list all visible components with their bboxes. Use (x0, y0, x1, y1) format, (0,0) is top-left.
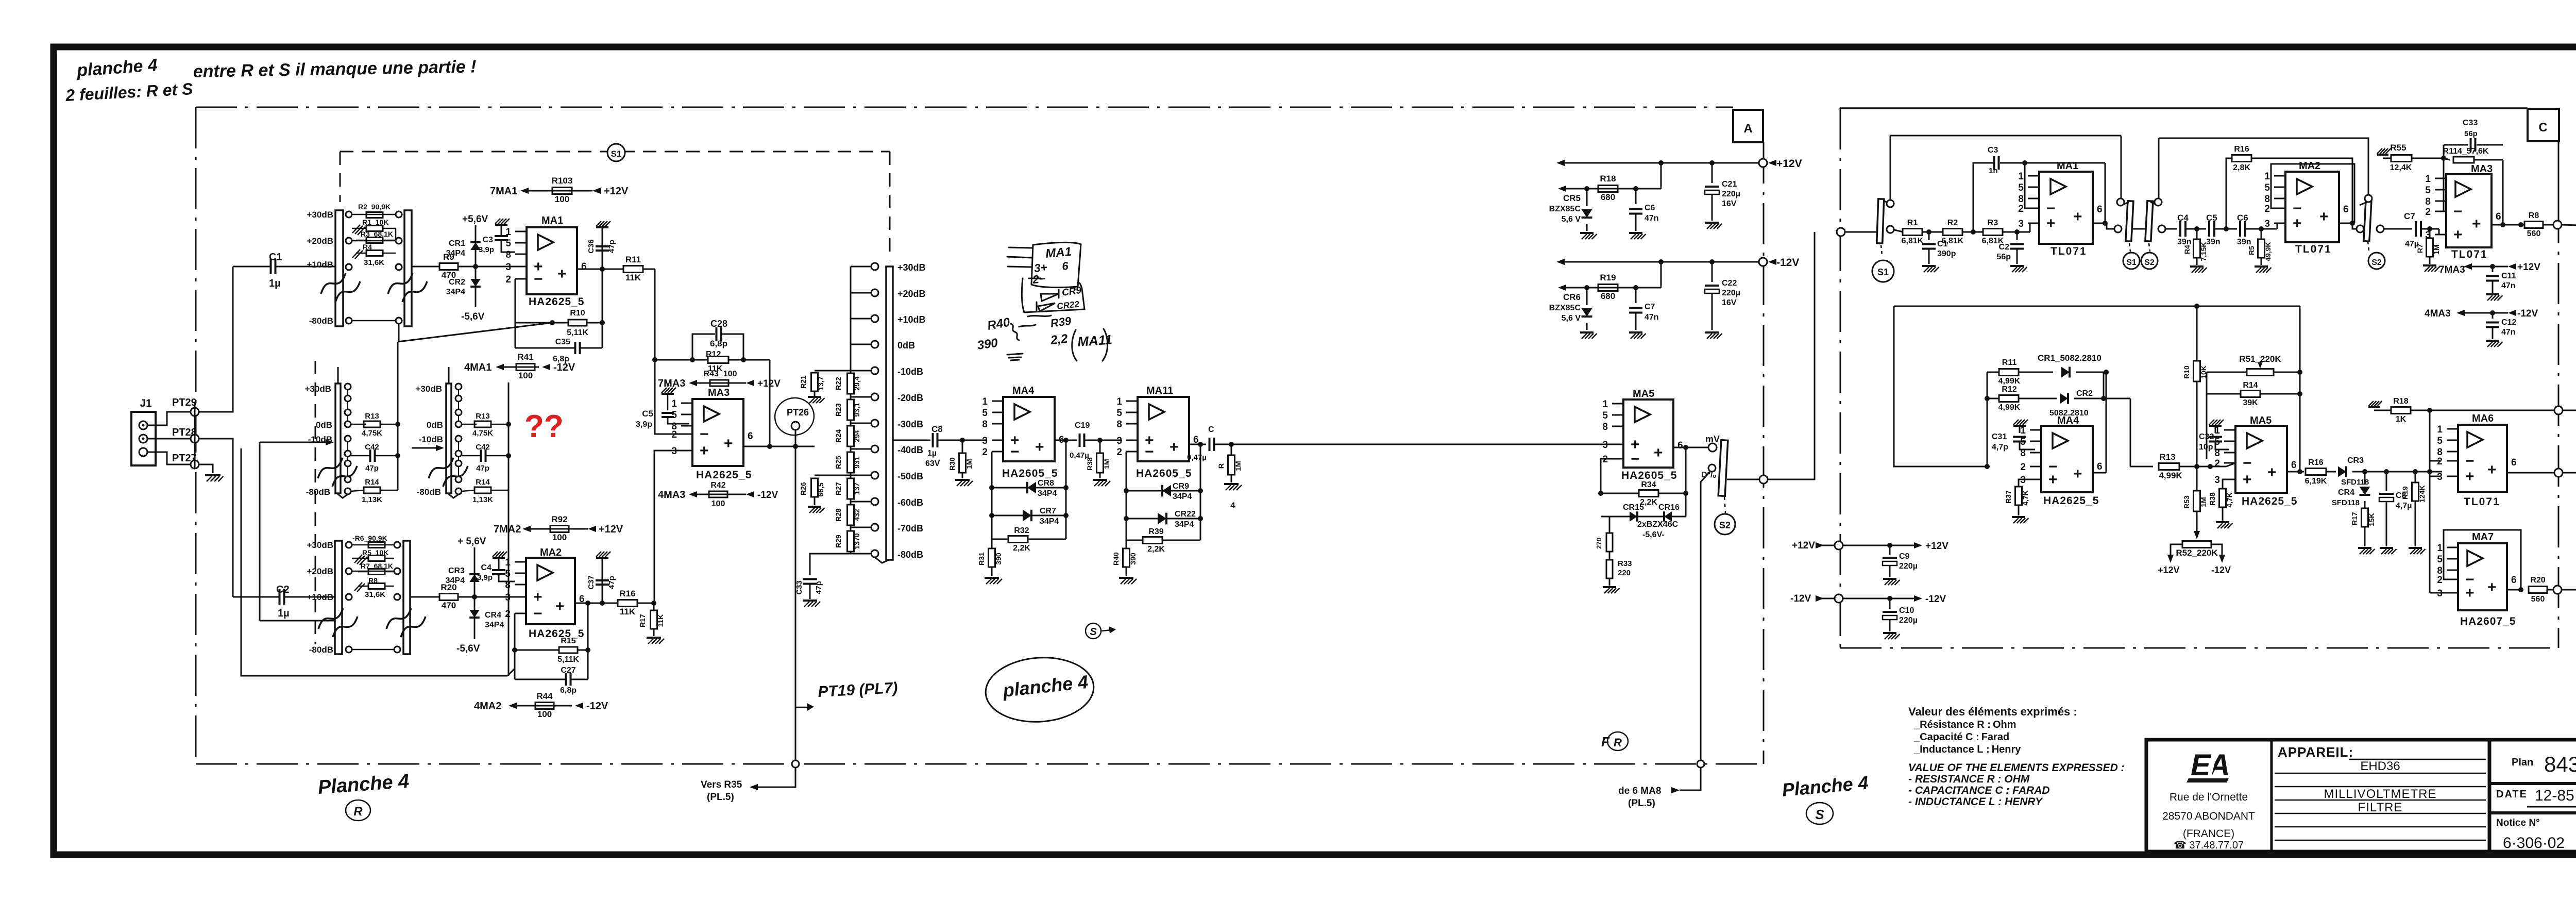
attenuator block2a wiper hook (337, 493, 348, 498)
svg-text:16V: 16V (1722, 298, 1737, 307)
svg-text:1,13K: 1,13K (472, 495, 493, 504)
resistor 270 (A) (1601, 516, 1609, 518)
diode CR22 34P4 (1126, 491, 1127, 519)
svg-text:-80dB: -80dB (306, 487, 330, 497)
resistor R33 220 (1606, 560, 1613, 578)
svg-text:R38: R38 (2208, 492, 2216, 506)
svg-text:C21: C21 (1722, 180, 1737, 189)
resistor R16 6,19K (C) (2306, 469, 2326, 475)
svg-text:R12: R12 (2002, 385, 2016, 394)
diode CR9 34P4 (1126, 490, 1200, 492)
diode CR1 34P4 (470, 242, 481, 250)
resistor R13 4,99K (2159, 463, 2179, 470)
resistor R16 11K (618, 600, 637, 607)
ladder bus segment above R25 (850, 446, 852, 452)
notch CR2 riser to main wire (2130, 398, 2131, 467)
MA5C pin3 drop to R38 (2223, 479, 2224, 489)
svg-text:R13: R13 (476, 412, 490, 421)
svg-text:S1: S1 (2126, 258, 2137, 267)
svg-text:C33: C33 (2463, 119, 2478, 127)
capacitor C36 47p (602, 227, 603, 269)
attenuator block2a squiggles (318, 458, 343, 478)
svg-text:-70dB: -70dB (897, 523, 923, 534)
diode CR7 34P4 (991, 488, 993, 515)
svg-text:1: 1 (1602, 399, 1608, 410)
capacitor C7 47u (2415, 221, 2417, 237)
op-amp MA5 HA2625_5 (C) (2235, 426, 2287, 493)
svg-text:R10: R10 (2182, 365, 2191, 379)
wire C6 to MA2C (2246, 228, 2277, 230)
svg-text:Notice N°: Notice N° (2496, 818, 2540, 828)
attenuator block2a bar top stub (337, 367, 339, 384)
svg-text:47p: 47p (476, 464, 489, 473)
hatch above C5 (662, 393, 674, 395)
hand sketch squiggly wires (1019, 315, 1051, 327)
svg-text:47n: 47n (2501, 281, 2516, 290)
R52 right leg to -12V (2211, 544, 2222, 558)
svg-text:MA3: MA3 (708, 387, 730, 398)
node PT29 (191, 408, 199, 416)
svg-text:8: 8 (1116, 419, 1122, 430)
resistor R30 1M (962, 440, 963, 454)
svg-text:R23: R23 (834, 403, 842, 417)
resistor R 1M (A) (1231, 444, 1232, 456)
ladder bus segment above R28 (850, 499, 852, 505)
switch slider bar (mV/D%) (1718, 440, 1728, 496)
svg-text:7MA3: 7MA3 (658, 378, 685, 389)
svg-text:8: 8 (1602, 422, 1608, 432)
switch slider 3 top contact (2365, 195, 2372, 202)
node circle MA6 output (2554, 469, 2563, 477)
op-amp MA11 HA2605_5 (1138, 397, 1189, 461)
svg-text:MA7: MA7 (2472, 531, 2494, 543)
svg-text:-80dB: -80dB (309, 316, 333, 326)
svg-text:R32: R32 (1014, 526, 1029, 535)
ladder tap stub +20dB (851, 292, 871, 294)
arrow +12V out (1914, 542, 1922, 548)
ladder tap stub -60dB (851, 501, 871, 503)
wire MA6 pin2 stub (2430, 460, 2440, 462)
svg-text:C36: C36 (587, 239, 596, 254)
capacitor C8 4,7u (C) (2386, 472, 2387, 491)
feedback capacitor C33 56p (C) (2444, 144, 2468, 146)
svg-text:390: 390 (976, 336, 999, 353)
wire CR3 node (2360, 471, 2442, 473)
wire -12V into node (1820, 598, 1835, 599)
svg-text:−: − (533, 605, 543, 622)
svg-text:5: 5 (2437, 436, 2443, 446)
wire R11 to MA3 riser (643, 269, 655, 270)
svg-text:11K: 11K (656, 614, 665, 627)
resistor R13 4,75K block2a (351, 424, 366, 425)
resistor R12 11K (708, 357, 728, 363)
resistor 270 vertical (1609, 517, 1611, 533)
long return wire lower left (241, 448, 507, 676)
resistor R23 93,1 (848, 399, 854, 420)
svg-text:0dB: 0dB (316, 420, 332, 430)
svg-text:270: 270 (1595, 538, 1603, 549)
svg-text:6: 6 (1677, 440, 1683, 451)
wire MA3 output (743, 446, 815, 447)
resistor R34 2,2K (1639, 490, 1658, 497)
svg-text:+: + (2048, 471, 2058, 488)
wire input to S1 input slider (1845, 231, 1877, 233)
MA2 feedback pin2 riser (514, 613, 516, 679)
svg-text:6: 6 (748, 431, 753, 442)
4MA3 wire and arrows (2456, 310, 2465, 316)
svg-text:+: + (2319, 208, 2329, 225)
svg-text:C4: C4 (2177, 213, 2189, 223)
svg-text:+20dB: +20dB (307, 567, 334, 576)
svg-text:+10dB: +10dB (307, 592, 334, 602)
ground below R7 (2423, 264, 2436, 267)
svg-text:R8: R8 (368, 576, 378, 585)
svg-text:6: 6 (581, 261, 587, 272)
power row 7MA2 arrow (522, 526, 531, 532)
dashed link to S2 label (2149, 243, 2150, 252)
svg-text:4,99K: 4,99K (1998, 377, 2021, 386)
MA4 pin2 riser (991, 452, 993, 488)
svg-text:+12V: +12V (2517, 262, 2540, 273)
svg-text:+20dB: +20dB (897, 289, 926, 299)
svg-text:C6: C6 (2237, 213, 2248, 223)
svg-text:1µ: 1µ (278, 608, 290, 619)
ladder output wire to C8 (893, 440, 930, 441)
mV contact circle (1708, 443, 1717, 452)
wire slider3 to C7 (2384, 228, 2412, 230)
node circle -12V on C edge (1835, 594, 1843, 603)
svg-text:R20: R20 (440, 582, 456, 592)
ladder slider bar (886, 267, 893, 560)
resistor R25 931 (848, 452, 854, 473)
ladder bus segment above R23 (850, 394, 852, 399)
svg-text:MA1: MA1 (2057, 160, 2078, 172)
ladder bus segment above R27 (850, 473, 852, 478)
switch S2 circle lower (C) (2368, 253, 2385, 269)
wire MA1 output (577, 269, 623, 270)
svg-text:2: 2 (2437, 575, 2443, 586)
ground below R40 (1119, 577, 1133, 579)
resistor R5 49,9K (2261, 229, 2262, 239)
svg-text:CR5: CR5 (1563, 193, 1581, 203)
ground below C8 C (2380, 547, 2393, 549)
resistor R12 4,99K (1987, 398, 1999, 399)
feedback resistor R114 57,6K (2444, 158, 2450, 160)
svg-text:MA5: MA5 (1633, 388, 1654, 399)
wire meter bottom (2563, 472, 2576, 474)
svg-text:C37: C37 (587, 575, 596, 590)
svg-text:-5,6V: -5,6V (456, 643, 480, 654)
diode CR8 34P4 (992, 487, 1066, 489)
attenuator block2b squiggles (429, 458, 453, 478)
svg-text:C5: C5 (642, 409, 653, 419)
notch box left riser (1894, 306, 1987, 467)
ladder tap stub -30dB (851, 423, 871, 424)
svg-text:3: 3 (2437, 472, 2443, 482)
svg-text:R103: R103 (552, 176, 573, 186)
-12V sub rail (1558, 285, 1566, 291)
resistor R19 124K (2415, 472, 2416, 482)
switch slider 3 input circle (2357, 225, 2364, 232)
node circle C-box input (1837, 228, 1845, 236)
svg-text:VALUE OF THE ELEMENTS EXPRESSE: VALUE OF THE ELEMENTS EXPRESSED : (1908, 762, 2125, 774)
svg-text:+: + (1654, 444, 1663, 461)
svg-text:CR15: CR15 (1623, 503, 1644, 512)
svg-text:+: + (724, 435, 733, 452)
svg-text:5,11K: 5,11K (557, 655, 579, 664)
ground below C7 A (1629, 331, 1642, 334)
wire R9 to MA1 pin3 (458, 266, 515, 268)
capacitor C9 220u (1889, 545, 1891, 555)
svg-text:-50dB: -50dB (897, 471, 923, 481)
svg-text:CR8: CR8 (1038, 479, 1054, 488)
svg-text:CR4: CR4 (485, 611, 501, 620)
svg-text:+: + (533, 589, 543, 606)
svg-text:843.964.: 843.964. (2544, 752, 2576, 776)
svg-text:56p: 56p (2464, 129, 2478, 138)
svg-text:R4: R4 (2183, 245, 2191, 254)
svg-text:1: 1 (1116, 396, 1122, 407)
R52 left leg to +12V (2171, 544, 2182, 558)
svg-text:2,2K: 2,2K (1013, 544, 1030, 553)
svg-text:de 6 MA8: de 6 MA8 (1618, 786, 1661, 796)
svg-text:C7: C7 (2404, 211, 2415, 221)
switch slider 3 bar (2364, 201, 2371, 241)
hatch ground MA1C lower-left (2025, 236, 2028, 237)
ladder tap stub -20dB (851, 396, 871, 398)
hand sketch R40 squiggle resistor (1011, 324, 1019, 340)
svg-text:47n: 47n (1645, 214, 1659, 223)
svg-text:R11: R11 (2002, 358, 2017, 367)
svg-text:-12V: -12V (553, 362, 575, 373)
ground below C6 (1629, 232, 1642, 234)
svg-text:C27: C27 (561, 666, 575, 675)
svg-text:3: 3 (2264, 219, 2270, 229)
svg-text:34P4: 34P4 (1175, 520, 1194, 529)
svg-text:470: 470 (442, 601, 456, 610)
svg-text:1M: 1M (965, 459, 973, 469)
svg-text:5: 5 (505, 238, 511, 249)
wire MA1C output (2093, 223, 2107, 224)
wire C1 to attenuator 1 (276, 266, 335, 268)
svg-text:- CAPACITANCE C : FARAD: - CAPACITANCE C : FARAD (1908, 785, 2050, 796)
svg-text:R37: R37 (2004, 490, 2012, 504)
ground below R38 C (2216, 521, 2229, 523)
svg-text:-80dB: -80dB (309, 645, 333, 655)
MA2 feedback right riser (587, 603, 589, 679)
switch S1 circle (C) (2123, 253, 2140, 269)
svg-text:12,4K: 12,4K (2390, 163, 2412, 172)
svg-text:12-85: 12-85 (2535, 787, 2574, 804)
svg-text:1: 1 (505, 227, 511, 238)
MA3 feedback right riser (769, 360, 771, 446)
feedback resistor R16 2,8K (C) (2226, 158, 2232, 229)
resistor R26 66,5 (815, 475, 851, 476)
svg-text:+12V: +12V (1776, 158, 1802, 170)
svg-text:4MA1: 4MA1 (464, 362, 492, 373)
input switch slider bar (1877, 199, 1884, 243)
svg-text:2,8K: 2,8K (2233, 163, 2250, 172)
MA1C feedback riser (2025, 163, 2028, 208)
+12V rail arrow (1556, 160, 1565, 166)
capacitor C42 47p block2b (462, 455, 481, 457)
input slider output circle (1887, 226, 1894, 233)
connector J1 pin b (139, 435, 147, 443)
op-amp MA2 TL071 (2285, 172, 2339, 242)
resistor R40 390 (1126, 540, 1127, 548)
capacitor C3 3,9p (MA1) (495, 235, 508, 237)
svg-text:R92: R92 (551, 514, 567, 524)
hatch above C32 (2209, 425, 2222, 427)
svg-text:3,9p: 3,9p (479, 245, 494, 254)
svg-text:-60dB: -60dB (897, 497, 923, 508)
svg-text:4,7K: 4,7K (2225, 492, 2233, 508)
svg-text:6: 6 (2097, 204, 2103, 215)
ladder tap circle -70dB (871, 524, 878, 531)
resistor R39 2,2K (1126, 519, 1143, 540)
hand sketch diode CR19 (1041, 290, 1059, 301)
wire C3 to pin8 (501, 240, 515, 252)
CR8 CR7 R32 right riser (1065, 440, 1067, 539)
ladder bus bottom segment (850, 552, 852, 554)
block3 squiggles (318, 608, 343, 629)
resistor R14 1,13K block2a (351, 490, 364, 491)
svg-text:R17: R17 (2350, 512, 2359, 525)
attenuator block2b wiper hook (448, 493, 459, 498)
svg-text:5: 5 (2020, 437, 2026, 447)
svg-text:+30dB: +30dB (305, 384, 332, 394)
svg-text:1µ: 1µ (269, 278, 281, 289)
svg-text:6: 6 (2097, 461, 2103, 472)
resistor R7 68,1K (368, 569, 385, 575)
wire R3 to MA1C (2003, 231, 2030, 233)
resistor R43_100 (710, 380, 728, 386)
svg-text:39n: 39n (2237, 238, 2251, 246)
resistor R1 10K (366, 226, 383, 231)
svg-text:MA2: MA2 (2299, 160, 2320, 172)
wire meter top (2563, 410, 2576, 411)
svg-text:-R6_90,9K: -R6_90,9K (352, 534, 387, 542)
hand sketch input lines (1007, 247, 1041, 278)
hand sketch diode CR22 (1037, 302, 1055, 311)
svg-text:3: 3 (2425, 230, 2431, 241)
hatch above C37 (596, 557, 608, 559)
svg-text:HA2625_5: HA2625_5 (529, 296, 584, 308)
resistor R20 470 (439, 594, 458, 601)
appareil cell rule line 2 (2275, 773, 2486, 774)
R51 wiper (2260, 361, 2261, 365)
svg-text:3: 3 (505, 262, 511, 273)
capacitor C11 47n (2492, 267, 2494, 272)
svg-text:4,75K: 4,75K (472, 429, 493, 438)
MA4C pin3 drop to R37 (2019, 479, 2030, 487)
resistor R2 6,81K (1943, 229, 1962, 236)
svg-text:+12V: +12V (599, 524, 623, 535)
node PT27 (191, 460, 199, 469)
attenuator block2b circle column (455, 384, 462, 390)
capacitor C1 (270, 259, 272, 274)
wire MA7 pin3 stub (2430, 592, 2447, 594)
svg-text:R: R (1614, 736, 1622, 749)
wire node to J2 coax (2562, 225, 2576, 226)
svg-text:4,99K: 4,99K (1998, 403, 2021, 412)
svg-text:5: 5 (2437, 554, 2443, 565)
svg-text:2: 2 (2437, 456, 2443, 467)
svg-text:S: S (1815, 807, 1824, 822)
svg-text:R22: R22 (834, 377, 842, 390)
dashed link to S2b label (2368, 241, 2369, 251)
svg-text:100: 100 (552, 532, 567, 542)
ladder tap stub +10dB (851, 318, 871, 320)
svg-text:8: 8 (2020, 448, 2026, 459)
svg-text:6: 6 (2291, 460, 2297, 471)
resistor R32 2,2K (992, 515, 1008, 539)
wire -10dB feed row3 (260, 620, 335, 622)
svg-text:2: 2 (1116, 447, 1122, 458)
svg-text:_Capacité C : Farad: _Capacité C : Farad (1913, 731, 2009, 743)
svg-text:R21: R21 (799, 375, 807, 389)
svg-text:1: 1 (2018, 171, 2024, 182)
svg-text:-12V: -12V (1776, 257, 1799, 269)
ladder tap stub -10dB (851, 370, 871, 372)
resistor R3 6,81K (1983, 229, 2003, 236)
svg-text:4,7p: 4,7p (1992, 443, 2008, 452)
svg-text:HA2625_5: HA2625_5 (696, 469, 752, 481)
svg-text:34P4: 34P4 (485, 621, 504, 629)
resistor R37 4,7K (2015, 487, 2022, 505)
svg-text:47n: 47n (1645, 313, 1659, 322)
capacitor C31 4,7p (2019, 426, 2021, 433)
wire C4 to C5 (2186, 228, 2206, 230)
hand circled R (left) (346, 800, 370, 821)
svg-text:R24: R24 (834, 429, 842, 443)
MA5A pin2 riser (1601, 459, 1612, 493)
svg-text:2: 2 (2214, 458, 2220, 469)
node circle on bottom dash rail (MA8 line) (1697, 760, 1704, 768)
hand sketch op-amp box (1031, 242, 1081, 287)
svg-text:TL071: TL071 (2451, 248, 2488, 260)
hand-drawn circle around PT26 (771, 394, 817, 439)
ground below C21 (1705, 222, 1719, 224)
ground below R21 (808, 396, 821, 398)
svg-text:- INDUCTANCE L : HENRY: - INDUCTANCE L : HENRY (1908, 796, 2043, 808)
hand sketch MA11 bracket (1072, 329, 1108, 361)
wire C1 input (233, 266, 270, 268)
svg-text:+: + (2453, 226, 2463, 243)
node circle +12V on C edge (1835, 541, 1843, 549)
svg-text:31,6K: 31,6K (364, 258, 384, 267)
svg-text:39n: 39n (2206, 238, 2221, 246)
wire R20 to MA2 pin3 (458, 596, 515, 598)
capacitor C6 47n (1635, 189, 1637, 204)
svg-text:+12V: +12V (757, 378, 781, 389)
wire MA5C output (2287, 471, 2300, 473)
wire MA2 output (575, 603, 618, 604)
resistor R14 1,13K block2b (462, 490, 474, 491)
resistor R18 680 (1598, 186, 1618, 192)
svg-text:MA4: MA4 (1012, 385, 1035, 396)
svg-text:4,7µ: 4,7µ (2396, 502, 2412, 510)
section A dash-dot box bottom edge (196, 763, 1764, 765)
svg-text:R42: R42 (710, 481, 725, 490)
attenuator block1 left bar (335, 210, 343, 326)
block1 squiggle marks (321, 273, 346, 294)
svg-text:2: 2 (2018, 204, 2024, 214)
svg-text:13,7: 13,7 (817, 376, 825, 390)
section A dash-dot box left edge (195, 107, 197, 764)
ladder bus segment above R29 (850, 525, 852, 531)
svg-text:MA11: MA11 (1146, 385, 1173, 396)
